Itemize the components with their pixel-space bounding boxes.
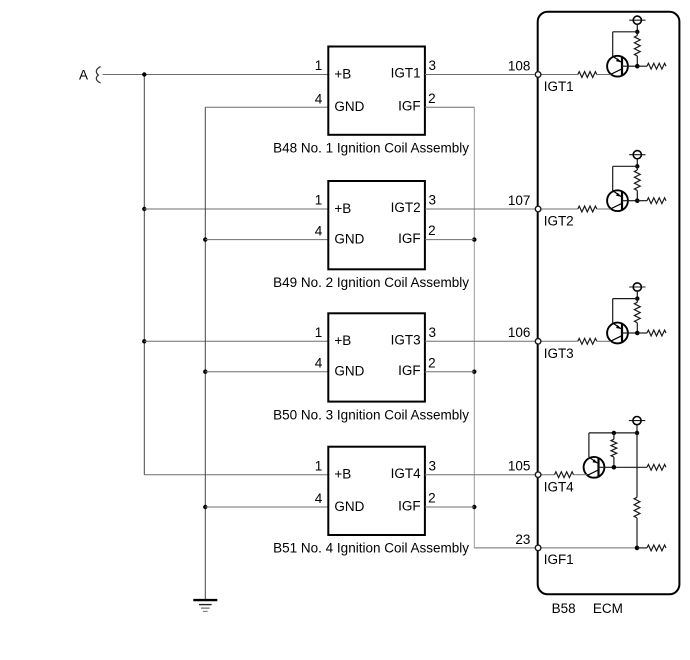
svg-text:IGT1: IGT1	[391, 66, 421, 81]
wire IGF coil 4 to bus	[425, 506, 474, 508]
svg-text:105: 105	[508, 459, 531, 474]
wire power stub IGT1	[636, 24, 638, 32]
svg-text:23: 23	[515, 532, 530, 547]
IGF bus vertical	[473, 107, 475, 548]
wire A to coil 1 +B	[103, 74, 329, 76]
junction node A	[142, 72, 146, 76]
wire-break squiggle at node A	[96, 67, 100, 83]
GND bus vertical	[204, 107, 206, 599]
resistor IGF1 pull-up	[634, 497, 640, 518]
svg-text:ECM: ECM	[593, 601, 623, 616]
svg-text:106: 106	[508, 325, 531, 340]
junction supply IGT1	[635, 30, 639, 34]
junction IGF coil 2	[472, 237, 476, 241]
ground symbol	[193, 600, 217, 611]
transistor IGT4 driver	[584, 457, 605, 478]
wire GND coil 3	[205, 371, 328, 373]
wire supply to collector IGT3	[613, 298, 638, 300]
svg-text:+B: +B	[334, 66, 351, 81]
svg-text:B50 No. 3 Ignition Coil Assemb: B50 No. 3 Ignition Coil Assembly	[273, 407, 469, 422]
svg-text:B51 No. 4 Ignition Coil Assemb: B51 No. 4 Ignition Coil Assembly	[273, 541, 469, 556]
svg-text:IGT3: IGT3	[544, 346, 574, 361]
svg-text:GND: GND	[334, 99, 364, 114]
resistor right IGT2	[637, 200, 647, 202]
svg-text:IGT2: IGT2	[391, 200, 421, 215]
resistor input IGT4	[555, 472, 574, 478]
svg-text:2: 2	[428, 91, 436, 106]
wire supply rail IGT4	[589, 432, 637, 434]
svg-text:IGT2: IGT2	[544, 214, 574, 229]
svg-text:IGF: IGF	[398, 99, 421, 114]
wire base IGT2	[622, 200, 637, 202]
wire IGF coil 1 to bus	[425, 106, 474, 108]
pin 108 terminal	[535, 72, 541, 78]
junction IGF coil 3	[472, 370, 476, 374]
pin 106 terminal	[535, 339, 541, 345]
wire GND coil 1	[205, 106, 328, 108]
junction IGF coil 4	[472, 505, 476, 509]
resistor input IGT3	[578, 338, 597, 344]
svg-text:2: 2	[428, 491, 436, 506]
svg-text:1: 1	[315, 325, 323, 340]
wire input to transistor IGT2	[597, 208, 611, 210]
ignition coil assembly box B48	[328, 47, 425, 135]
svg-text:1: 1	[315, 458, 323, 473]
svg-text:4: 4	[315, 356, 323, 371]
resistor right IGT3	[637, 332, 647, 334]
svg-text:B48 No. 1 Ignition Coil Assemb: B48 No. 1 Ignition Coil Assembly	[273, 141, 469, 156]
junction GND coil 2	[203, 237, 207, 241]
svg-text:107: 107	[508, 193, 531, 208]
wire input to transistor IGT1	[597, 74, 611, 76]
resistor pull-up IGT4	[613, 433, 615, 439]
wire +B to coil 3	[144, 340, 328, 342]
wire IGF coil 2 to bus	[425, 239, 474, 241]
junction supply IGT2	[635, 164, 639, 168]
+B bus vertical	[143, 75, 145, 475]
wire input to transistor IGT3	[597, 340, 611, 342]
svg-text:+B: +B	[334, 201, 351, 216]
junction IGT1 node	[635, 64, 640, 69]
svg-text:+B: +B	[334, 467, 351, 482]
power symbol IGT1	[629, 19, 645, 21]
resistor right IGT4	[647, 464, 666, 470]
svg-text:3: 3	[429, 458, 437, 473]
svg-text:IGT4: IGT4	[391, 466, 421, 481]
wire GND coil 4	[205, 506, 328, 508]
junction +B coil 3	[142, 339, 146, 343]
ignition coil assembly box B49	[328, 181, 425, 269]
ignition coil assembly box B50	[328, 313, 425, 401]
svg-text:IGF: IGF	[398, 363, 421, 378]
svg-text:3: 3	[429, 325, 437, 340]
resistor right IGT1	[637, 65, 647, 67]
wire IGT1 coil to ECM	[425, 74, 578, 76]
ECM box B58	[538, 12, 680, 595]
svg-text:3: 3	[429, 193, 437, 208]
svg-text:4: 4	[315, 224, 323, 239]
pin 23 terminal	[535, 545, 541, 551]
junction supply IGT3	[635, 296, 639, 300]
junction IGT3 node	[635, 331, 640, 336]
wire IGT4 coil to ECM	[425, 474, 555, 476]
wire base IGT1	[622, 65, 637, 67]
wire +B to coil 2	[144, 208, 328, 210]
wire power stub IGT3	[636, 291, 638, 299]
wire IGF1 inside ECM	[538, 547, 637, 549]
pin 105 terminal	[535, 472, 541, 478]
wire +B to coil 4	[144, 474, 328, 476]
junction supply IGT4 right	[635, 431, 639, 435]
wire power stub IGT2	[636, 159, 638, 167]
svg-text:GND: GND	[334, 364, 364, 379]
resistor pull-up IGT2	[636, 166, 638, 170]
wire supply to collector IGT2	[613, 165, 638, 167]
svg-text:IGF: IGF	[398, 231, 421, 246]
svg-text:2: 2	[428, 223, 436, 238]
resistor input IGT2	[578, 206, 597, 212]
wire IGF coil 3 to bus	[425, 371, 474, 373]
svg-text:IGT4: IGT4	[544, 479, 574, 494]
svg-text:IGF: IGF	[398, 498, 421, 513]
resistor input IGT1	[578, 72, 597, 78]
wire IGF bus to ECM pin 23	[474, 547, 537, 549]
svg-text:1: 1	[315, 58, 323, 73]
wire base IGT4	[599, 466, 648, 468]
svg-text:+B: +B	[334, 333, 351, 348]
svg-text:IGT3: IGT3	[391, 333, 421, 348]
wire GND coil 2	[205, 239, 328, 241]
junction IGT2 node	[635, 198, 640, 203]
power symbol IGT3	[629, 286, 645, 288]
transistor IGT2 driver	[607, 190, 628, 211]
svg-text:3: 3	[429, 58, 437, 73]
svg-text:4: 4	[315, 491, 323, 506]
transistor IGT3 driver	[607, 323, 628, 344]
junction IGF1 node	[635, 546, 640, 551]
power symbol IGT2	[629, 154, 645, 156]
svg-text:B49 No. 2 Ignition Coil Assemb: B49 No. 2 Ignition Coil Assembly	[273, 275, 469, 290]
svg-text:IGT1: IGT1	[544, 79, 574, 94]
power symbol IGT4	[629, 420, 645, 422]
wire IGT3 coil to ECM	[425, 340, 578, 342]
svg-text:B58: B58	[552, 601, 576, 616]
wire supply to IGF1 node	[636, 433, 638, 497]
wire power stub IGT4	[636, 425, 638, 433]
resistor pull-up IGT3	[636, 299, 638, 303]
wire input to transistor IGT4	[574, 474, 588, 476]
junction supply IGT4 mid	[612, 431, 616, 435]
svg-text:GND: GND	[334, 231, 364, 246]
svg-text:A: A	[79, 67, 88, 82]
pin 107 terminal	[535, 206, 541, 212]
wire IGT2 coil to ECM	[425, 208, 578, 210]
svg-text:GND: GND	[334, 499, 364, 514]
svg-text:4: 4	[315, 91, 323, 106]
svg-text:2: 2	[428, 355, 436, 370]
svg-text:1: 1	[315, 193, 323, 208]
resistor right IGF1	[637, 547, 647, 549]
wire supply to collector IGT1	[613, 31, 638, 33]
ignition coil assembly box B51	[328, 447, 425, 535]
resistor pull-up IGT1	[636, 32, 638, 36]
svg-text:IGF1: IGF1	[544, 552, 574, 567]
wire base IGT3	[622, 332, 637, 334]
svg-text:108: 108	[508, 58, 531, 73]
transistor IGT1 driver	[607, 56, 628, 77]
junction GND coil 3	[203, 370, 207, 374]
junction +B coil 2	[142, 207, 146, 211]
junction GND coil 4	[203, 505, 207, 509]
junction base IGT4	[612, 465, 617, 470]
